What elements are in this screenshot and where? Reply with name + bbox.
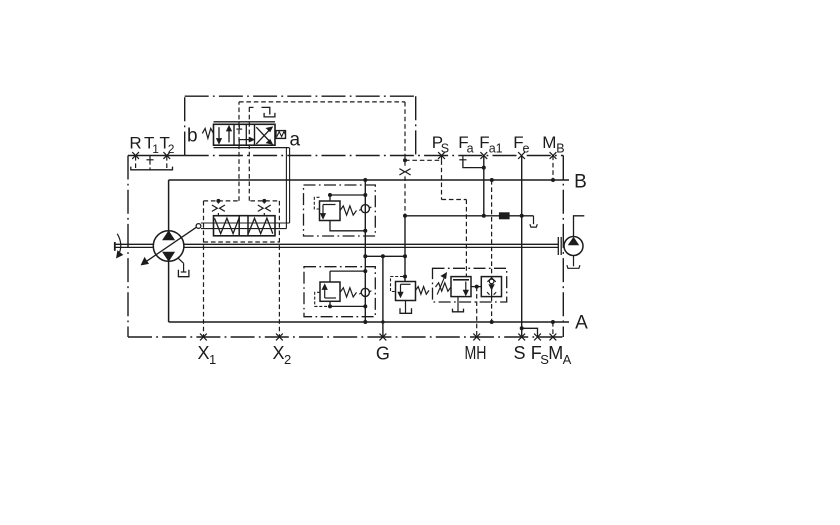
orifice left (212, 205, 217, 211)
work line B (169, 179, 569, 181)
pilot from PS (dashed) (441, 160, 443, 199)
main valve line B to A (364, 180, 366, 322)
gauge line to G (382, 256, 384, 337)
variable displacement arrow through pump (145, 227, 196, 262)
cylinder piston (239, 216, 248, 236)
port MA (550, 334, 557, 341)
swashplate pivot circle (196, 224, 201, 229)
svg-text:M: M (548, 343, 563, 363)
aux pump suction line (574, 216, 585, 237)
svg-text:B: B (574, 172, 587, 193)
cut-off group dash-dot box (433, 268, 507, 302)
pilot valve body U1 (214, 121, 276, 123)
boost check valve symbol (491, 277, 493, 297)
proportional solenoid a (276, 131, 286, 139)
relief valve B spring (340, 206, 357, 215)
control module dashed box (204, 200, 238, 202)
svg-text:2: 2 (284, 352, 291, 367)
work line A (169, 321, 569, 323)
port R (132, 152, 139, 159)
node left pilot (216, 199, 220, 203)
port MB (550, 152, 557, 159)
svg-text:R: R (129, 134, 141, 153)
valve center position symbol (238, 124, 240, 128)
charge relief drain tank (405, 301, 407, 314)
svg-text:G: G (376, 344, 390, 364)
svg-text:1: 1 (209, 352, 216, 367)
node PS tap (403, 158, 407, 162)
svg-text:b: b (187, 126, 198, 147)
svg-text:A: A (563, 352, 572, 367)
port Fa1 line (483, 156, 485, 216)
svg-text:a: a (290, 130, 301, 151)
port Fa1 (480, 152, 487, 159)
port T1 (149, 156, 151, 160)
cut-off drain tank (457, 297, 459, 312)
svg-text:X: X (273, 343, 285, 363)
svg-text:A: A (575, 313, 588, 334)
port S (518, 334, 525, 341)
port MH (473, 334, 480, 341)
relief valve A pilot (dashed) (315, 292, 330, 306)
pilot line b-side (dashed) (249, 106, 256, 108)
charge relief pilot (dashed) (391, 277, 404, 292)
auxiliary pump (564, 237, 583, 256)
relief valve A internal arrow (325, 297, 336, 299)
svg-text:M: M (542, 133, 556, 152)
check valve B (ball) (361, 205, 369, 213)
shaft rotation arrow (117, 234, 120, 253)
valve spring side b (202, 128, 213, 138)
pump case drain to tank (178, 258, 184, 263)
port X1 (200, 334, 207, 341)
port Fa link (463, 160, 484, 168)
svg-text:S: S (513, 343, 525, 363)
relief valve A spring (340, 288, 357, 297)
charge relief spring (416, 287, 430, 295)
relief valve B square (320, 201, 341, 221)
pump port line down to A (168, 261, 170, 322)
relief valve B output (330, 221, 365, 231)
boost check valve square (481, 277, 501, 297)
check valve A (ball) (361, 288, 369, 296)
pilot line a-side (dashed) down and over top (238, 102, 240, 201)
valve position b arrows (218, 127, 220, 140)
aux pump drain tank (573, 256, 575, 267)
pump port line up to B (168, 180, 170, 231)
charge relief internal arrow (401, 283, 411, 285)
relief unit A dash-dot box (304, 267, 375, 317)
line Fe to S (521, 156, 523, 338)
valve drain to tank symbol (262, 107, 270, 114)
feed drain to tank (533, 216, 535, 224)
link S to FS (522, 328, 538, 337)
svg-text:1: 1 (152, 142, 159, 156)
shaft coupling (557, 237, 559, 255)
relief valve A output (330, 301, 365, 306)
drain manifold bracket under R T1 T2 (135, 156, 137, 170)
port Fe (518, 152, 525, 159)
check pilot to line A (dashed) (491, 297, 493, 322)
orifice plug (blanked) (500, 213, 510, 219)
cut-off valve internals (453, 279, 469, 281)
measuring line MH (dashed) (476, 287, 478, 337)
stroking cylinder body (214, 216, 276, 236)
drive shaft left (115, 243, 154, 245)
variable displacement pump circle (153, 231, 184, 262)
svg-text:2: 2 (168, 142, 175, 156)
relief valve B internal arrow (323, 204, 336, 206)
relief A top link (330, 270, 365, 272)
charge pressure line (365, 255, 405, 257)
port PS (438, 152, 445, 159)
svg-text:a: a (467, 142, 474, 156)
enclosure notch around pilot valve (dash-dot) (184, 96, 186, 155)
cylinder spring right (248, 218, 272, 233)
piston rod and link (201, 222, 290, 224)
relief valve B pilot (dashed) (314, 197, 319, 209)
svg-text:S: S (441, 142, 449, 156)
port T2 (163, 152, 170, 159)
port G (380, 334, 387, 341)
measuring line MB (dashed) (552, 156, 554, 181)
boost feed line (405, 215, 534, 217)
enclosure housing outline (dash-dot) (128, 155, 185, 157)
relief B top link (330, 194, 365, 196)
cut-off spring adjustable (436, 283, 452, 291)
mechanical feedback linkage (285, 148, 287, 229)
relief valve A square (320, 282, 340, 301)
node right pilot (262, 199, 266, 203)
cut-off valve square (451, 277, 471, 297)
port Fa (462, 156, 464, 160)
through drive shaft (184, 243, 558, 245)
cut-off to check link (471, 286, 481, 288)
orifice right (258, 205, 263, 211)
port FS (534, 334, 541, 341)
check pilot to line B (dashed) (491, 180, 493, 277)
line to charge relief (404, 216, 406, 282)
valve position a crossed arrows (256, 130, 270, 144)
charge relief valve square (396, 282, 416, 301)
svg-text:B: B (556, 142, 564, 156)
svg-text:a1: a1 (489, 142, 503, 156)
svg-text:X: X (198, 343, 210, 363)
cylinder spring left (215, 218, 240, 233)
relief unit B dash-dot box (304, 185, 376, 236)
svg-text:MH: MH (465, 343, 487, 363)
measuring line MA (dashed) (552, 322, 554, 337)
orifice on pilot supply (399, 169, 404, 175)
svg-text:e: e (523, 142, 530, 156)
port X2 (276, 334, 283, 341)
